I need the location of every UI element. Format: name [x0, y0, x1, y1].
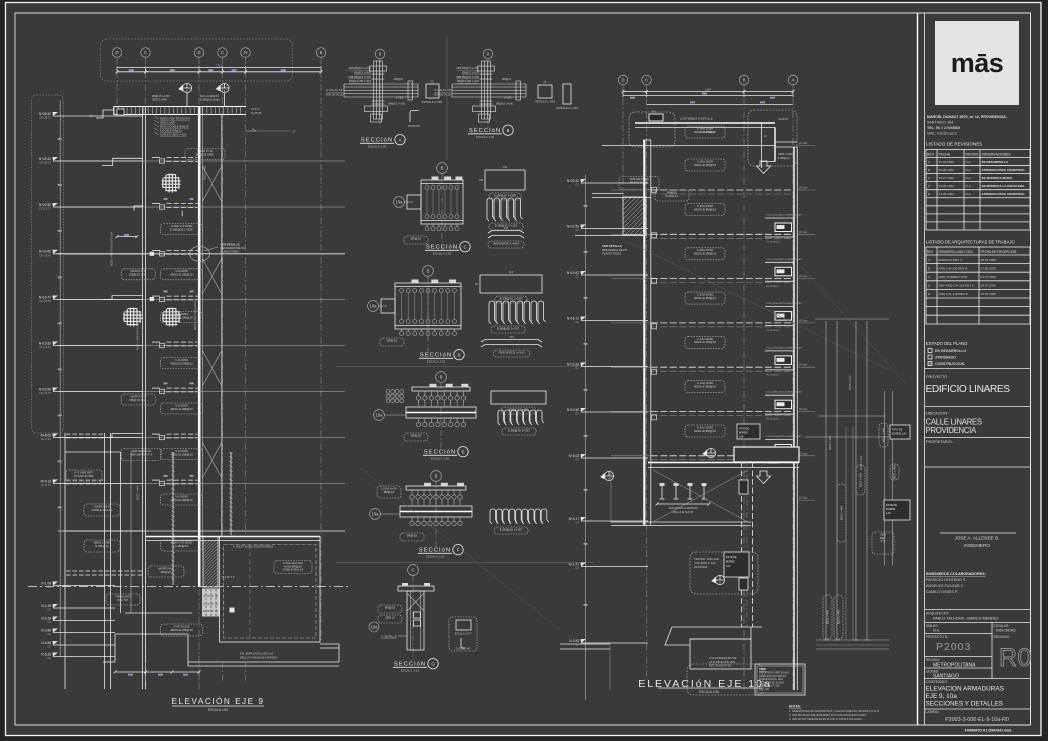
seccion F grid bubble B [431, 471, 442, 482]
svg-text:20.04.2020: 20.04.2020 [981, 258, 997, 262]
svg-text:ESCALA 1:20: ESCALA 1:20 [426, 555, 445, 559]
EJE10a column callout boxes [739, 480, 748, 494]
seccion F top dots row [410, 495, 414, 499]
EJE10a stub box y311.6 [775, 312, 792, 321]
svg-text:2Ø8 Ø8@15 L=160: 2Ø8 Ø8@15 L=160 [456, 75, 479, 79]
svg-text:N+16.72: N+16.72 [39, 295, 51, 299]
svg-text:N+1.27: N+1.27 [569, 562, 580, 566]
svg-text:FECHA: FECHA [939, 153, 951, 157]
svg-text:CF+28.17: CF+28.17 [39, 116, 51, 120]
svg-text:N+28.32: N+28.32 [39, 112, 51, 116]
lamina cell [925, 708, 1031, 710]
svg-text:ESCALAS:: ESCALAS: [994, 624, 1010, 628]
grid bubble N4 EJE9 [241, 48, 251, 58]
EJE9 left level rail line [59, 100, 61, 657]
svg-text:E.Ø8@10 L=167: E.Ø8@10 L=167 [500, 527, 523, 531]
svg-text:N+28.35: N+28.35 [778, 117, 788, 121]
EJE10a floor line 8 [611, 455, 651, 457]
seccion D legend rectangle [480, 275, 542, 293]
svg-text:PLANO P2003: PLANO P2003 [602, 252, 621, 256]
seccion C legend rectangle [485, 170, 525, 190]
svg-text:N.A.: N.A. [966, 160, 972, 164]
svg-text:E: E [928, 192, 930, 196]
EJE9 lower mid clouds [161, 494, 203, 505]
svg-text:N-3.53: N-3.53 [569, 639, 579, 643]
svg-text:B-1: B-1 [652, 110, 657, 114]
divider [925, 437, 1031, 439]
grid bubble C EJE10a [642, 75, 652, 85]
EJE10a right stub floor 7 [797, 411, 815, 413]
svg-text:D.MALLA: D.MALLA [666, 194, 679, 198]
svg-text:10a: 10a [372, 512, 380, 517]
svg-text:N+13.82: N+13.82 [39, 341, 51, 345]
EJE9 floor level line 9 [58, 530, 345, 532]
EJE10a cut symbol low [715, 575, 724, 584]
seccion E legend rectangle [491, 391, 546, 404]
long leader diagonal 2 [360, 468, 560, 630]
seccion B right square details [538, 85, 552, 98]
svg-text:EJE 9, 10a: EJE 9, 10a [926, 693, 958, 700]
svg-text:APRUEBA PARA CONSTRUC.: APRUEBA PARA CONSTRUC. [982, 168, 1026, 172]
EJE10a floor line 2 [611, 189, 651, 191]
svg-text:PLANO P2003: PLANO P2003 [74, 474, 94, 478]
svg-text:ESCALA L=43: ESCALA L=43 [456, 648, 471, 651]
svg-text:ESTE DE: ESTE DE [726, 556, 737, 559]
svg-text:10a: 10a [396, 200, 404, 205]
svg-text:ESCALA 1:50: ESCALA 1:50 [699, 690, 719, 694]
grid bubble A EJE10a [788, 75, 798, 85]
svg-text:N-5.28: N-5.28 [41, 652, 51, 656]
svg-text:4Ø22+E.Ø8@10: 4Ø22+E.Ø8@10 [170, 361, 193, 365]
EJE9 wall label clouds [161, 224, 203, 235]
rebar schedule tie lines [815, 318, 889, 320]
svg-text:B: B [743, 78, 746, 83]
region cell [925, 656, 993, 658]
svg-text:8Ø25 L=460 TRASLAPO 50d: 8Ø25 L=460 TRASLAPO 50d [110, 232, 114, 266]
svg-text:LOSA Ø8@15 L=DETALLE: LOSA Ø8@15 L=DETALLE [680, 117, 713, 121]
EJE9 small dim ticks right wall [164, 198, 166, 200]
svg-text:SECCIóN: SECCIóN [420, 353, 452, 359]
svg-text:8Ø25 L=460: 8Ø25 L=460 [826, 609, 830, 624]
svg-text:LP E.V.: LP E.V. [251, 107, 260, 111]
seccion A right square detail [426, 84, 439, 98]
EJE10a left side clouds [619, 177, 659, 190]
title block outer box [925, 13, 1031, 725]
svg-text:LF Llav: LF Llav [799, 319, 808, 322]
svg-text:PROPIETARIO :: PROPIETARIO : [926, 440, 954, 444]
EJE9 top slab left step [96, 110, 114, 118]
svg-text:V-10a 20/50 4Ø22+E.Ø8@10 L=DET: V-10a 20/50 4Ø22+E.Ø8@10 L=DET [766, 259, 803, 261]
svg-text:D: D [115, 50, 118, 55]
EJE9 bottom dimension line [115, 671, 200, 673]
svg-text:CF+13.67: CF+13.67 [39, 345, 51, 349]
svg-text:3- VER NOTAS GENERALES EN PLAN: 3- VER NOTAS GENERALES EN PLANO N P2003-… [789, 718, 863, 721]
svg-text:A: A [399, 138, 402, 143]
EJE9 bottom right panel [146, 536, 320, 538]
svg-text:DETALLE L=303: DETALLE L=303 [535, 100, 556, 104]
seccion F left bubble [370, 509, 381, 520]
EJE10a right stub floor 4 [797, 278, 815, 280]
svg-text:V-10a 20/50 4Ø22+E.Ø8@10 L=DET: V-10a 20/50 4Ø22+E.Ø8@10 L=DET [766, 215, 803, 217]
EJE10a top right portal column [761, 123, 763, 168]
ciudad cell [925, 667, 993, 669]
EJE9 left wall (double line) [142, 106, 144, 689]
svg-text:C: C [221, 50, 224, 55]
EJE10a floor line 3 [611, 233, 651, 235]
svg-text:APRUEBA PARA CONSTRUC.: APRUEBA PARA CONSTRUC. [982, 192, 1026, 196]
svg-text:CF: CF [575, 366, 579, 370]
svg-text:2- VER DETALLES DEL REFUERZO E: 2- VER DETALLES DEL REFUERZO EN PLANO DE… [789, 714, 867, 717]
svg-text:ESCALA 1:20: ESCALA 1:20 [431, 457, 450, 461]
EJE9 LP edge line right [246, 130, 290, 132]
EJE10a floor line 5 [611, 322, 651, 324]
svg-text:OBSERVACIONES: OBSERVACIONES [982, 153, 1012, 157]
seccion G column [407, 591, 424, 650]
divider arquitecto [925, 609, 1031, 611]
EJE9 panel side ticks [320, 643, 339, 645]
EJE10a floor line 4 [611, 278, 651, 280]
seccion G inner boxes [414, 612, 421, 618]
svg-text:B: B [507, 128, 510, 133]
svg-text:MARCEL DUHAUT 2870, of. 12, PR: MARCEL DUHAUT 2870, of. 12, PROVIDENCIA, [927, 115, 1007, 119]
EJE9 lower-left connect line [65, 530, 143, 532]
svg-text:4Ø22+E.Ø8@10: 4Ø22+E.Ø8@10 [170, 273, 193, 277]
svg-text:BORDE: BORDE [726, 561, 735, 564]
svg-text:CF: CF [47, 656, 51, 660]
seccion D left support bubble [368, 301, 379, 312]
svg-text:N+4.17: N+4.17 [569, 517, 580, 521]
grid bubble B5 EJE9 [316, 48, 326, 58]
EJE9 lower-left clouds [66, 470, 102, 482]
EJE9 right wall (bright) [198, 106, 201, 587]
svg-text:CF: CF [47, 620, 51, 624]
seccion E left dots stack [386, 390, 390, 394]
svg-text:Ø8@15 D.M.: Ø8@15 D.M. [129, 273, 147, 277]
rebar cloud small [872, 532, 894, 554]
svg-text:ESTE DE: ESTE DE [886, 503, 897, 507]
svg-text:1715: 1715 [216, 63, 222, 67]
svg-text:100: 100 [479, 178, 484, 182]
svg-text:N+25.42: N+25.42 [39, 157, 51, 161]
svg-text:200x200x8: 200x200x8 [694, 565, 708, 569]
svg-text:LOS ARRANQUES DE: LOS ARRANQUES DE [709, 656, 737, 660]
svg-text:N+19.62: N+19.62 [39, 250, 51, 254]
svg-text:BORDE: BORDE [739, 432, 748, 435]
divider F/G [336, 562, 594, 564]
svg-text:N.A.: N.A. [966, 176, 972, 180]
seccion C length bracket [488, 231, 524, 234]
svg-text:ESCALA 1:20: ESCALA 1:20 [401, 669, 420, 673]
EJE10a hatch region [623, 197, 646, 235]
svg-text:N+16.72: N+16.72 [567, 316, 579, 320]
svg-text:Ø8@15+Ø8 L=303: Ø8@15+Ø8 L=303 [349, 79, 372, 83]
svg-text:10a: 10a [371, 625, 379, 630]
svg-text:LF Llav: LF Llav [799, 497, 808, 500]
svg-text:LF Llav: LF Llav [799, 187, 808, 190]
svg-text:L=303: L=303 [396, 96, 404, 100]
svg-text:INGENIEROS COLABORADORES:: INGENIEROS COLABORADORES: [926, 572, 986, 576]
svg-text:Ø8@15 L=160: Ø8@15 L=160 [388, 102, 406, 106]
svg-text:NOTAS:: NOTAS: [789, 705, 801, 709]
svg-text:E.Ø8@10 c/lado: E.Ø8@10 c/lado [200, 97, 220, 101]
svg-text:8Ø25 L=460: 8Ø25 L=460 [893, 464, 897, 479]
svg-text:R0: R0 [999, 644, 1032, 672]
EJE10a thick beam over middle column [734, 447, 799, 462]
svg-text:2Ø12 L=340: 2Ø12 L=340 [152, 97, 167, 101]
EJE10a left wall [643, 140, 645, 525]
rebar cluster bottom ticks 2 [816, 639, 889, 641]
EJE10a revision cloud top-right [748, 110, 797, 166]
svg-text:2Ø8 Ø8@15 L=250: 2Ø8 Ø8@15 L=250 [348, 66, 371, 70]
svg-text:UBICACION :: UBICACION : [926, 412, 949, 416]
EJE10a cut symbol mid [706, 448, 715, 457]
svg-text:V-10a 20/50 4Ø22+E.Ø8@10 L=DET: V-10a 20/50 4Ø22+E.Ø8@10 L=DET [766, 303, 803, 305]
EJE10a right stub floor 3 [797, 233, 815, 235]
svg-text:Ø8@15 L=160: Ø8@15 L=160 [496, 102, 514, 106]
svg-text:SE MODIFICA LA ESCALERA: SE MODIFICA LA ESCALERA [982, 184, 1026, 188]
svg-text:TIPO DE: TIPO DE [739, 428, 749, 431]
EJE10a stub box y444.5 [775, 445, 792, 454]
section cut symbol 2 [220, 83, 229, 92]
svg-text:ESCALA 1:20: ESCALA 1:20 [368, 145, 387, 149]
svg-text:LAV: LAV [886, 511, 891, 515]
svg-text:Ø8@15 L=303: Ø8@15 L=303 [354, 70, 372, 74]
EJE9 floor level line 6 [58, 391, 345, 393]
svg-text:Ø8@15: Ø8@15 [387, 338, 398, 342]
svg-text:10a: 10a [370, 304, 378, 309]
svg-text:C: C [463, 245, 466, 250]
svg-text:CF: CF [575, 275, 579, 279]
svg-text:N+28.35: N+28.35 [251, 111, 262, 115]
svg-text:ARQ-LIN-106 REV B: ARQ-LIN-106 REV B [939, 266, 968, 270]
EJE9 panel label [274, 561, 312, 574]
svg-text:B: B [440, 375, 443, 380]
svg-text:V-10a 20/50 4Ø22+E.Ø8@10 L=DET: V-10a 20/50 4Ø22+E.Ø8@10 L=DET [766, 436, 803, 438]
seccion B wall cross [452, 61, 526, 122]
EJE10a top beam [635, 122, 775, 124]
svg-text:LAMINA:: LAMINA: [926, 710, 940, 714]
EJE10a floor line 1 [602, 145, 775, 147]
svg-text:ELEVACIÓN EJE 9: ELEVACIÓN EJE 9 [172, 696, 265, 706]
svg-text:CF: CF [47, 632, 51, 636]
seccion B grid bubble 9 [483, 49, 493, 59]
seccion C grid bubble B [437, 163, 448, 174]
EJE9 grid dashed verticals [116, 58, 118, 111]
EJE10a stub box y400.2 [775, 400, 792, 409]
svg-text:TIPO DE: TIPO DE [892, 428, 903, 432]
svg-text:Ø8@15 D.M.: Ø8@15 D.M. [129, 398, 147, 402]
svg-text:P5 DETALLE: P5 DETALLE [766, 285, 779, 288]
EJE10a stub box y223 [775, 223, 792, 232]
svg-text:CF+4.97: CF+4.97 [41, 483, 52, 487]
svg-text:D: D [457, 353, 460, 358]
svg-text:N.A.: N.A. [966, 184, 972, 188]
svg-text:INGENIERO: INGENIERO [964, 543, 990, 548]
EJE10a right stub floor 2 [797, 189, 815, 191]
svg-text:SECCIóN: SECCIóN [426, 245, 458, 251]
svg-text:8Ø25 L=460: 8Ø25 L=460 [837, 609, 841, 624]
svg-text:4Ø22+E.Ø8@10: 4Ø22+E.Ø8@10 [694, 130, 717, 134]
svg-text:4Ø22+E.Ø8@10: 4Ø22+E.Ø8@10 [694, 252, 717, 256]
seccion E bottom dots row [416, 422, 420, 426]
legend detail box [755, 664, 805, 695]
svg-text:24.07.2020: 24.07.2020 [981, 284, 997, 288]
svg-text:N+22.52: N+22.52 [567, 224, 579, 228]
svg-text:EDIFICIO REV 4: EDIFICIO REV 4 [939, 258, 962, 262]
svg-text:N: N [244, 50, 247, 55]
svg-text:CF+22.37: CF+22.37 [39, 207, 51, 211]
EJE9 floor level line 7 [58, 437, 345, 439]
EJE9 top slab beam [114, 106, 247, 108]
svg-text:4Ø22+E.Ø8@10: 4Ø22+E.Ø8@10 [694, 163, 717, 167]
grid bubble D0 EJE9 [112, 48, 122, 58]
svg-text:ESCALA 1:50: ESCALA 1:50 [208, 708, 228, 712]
svg-text:INDICADAS: INDICADAS [996, 629, 1016, 633]
rebar schedule bright box [890, 425, 910, 439]
svg-text:PROVIDENCIA: PROVIDENCIA [926, 426, 978, 435]
seccion E comb [498, 410, 504, 421]
svg-text:N-3.88: N-3.88 [41, 628, 51, 632]
section cut symbol 1 [182, 83, 191, 92]
svg-text:N+10.92: N+10.92 [567, 408, 579, 412]
EJE10a revision cloud top-left [629, 112, 675, 147]
svg-text:CF: CF [575, 183, 579, 187]
svg-text:ESCALA 1:20: ESCALA 1:20 [433, 252, 452, 256]
svg-text:REFUERZO P-3: REFUERZO P-3 [130, 452, 152, 456]
EJE9 extra clouds [161, 312, 203, 323]
svg-text:EDIFICIO LINARES: EDIFICIO LINARES [926, 384, 1011, 395]
svg-text:PLANO P2003: PLANO P2003 [220, 249, 239, 253]
svg-text:4Ø22+E.Ø8@10: 4Ø22+E.Ø8@10 [694, 207, 717, 211]
EJE10a middle column [741, 462, 743, 627]
svg-text:SE DESARROLLA: SE DESARROLLA [982, 160, 1009, 164]
svg-text:245: 245 [504, 226, 509, 230]
svg-text:SECCIóN: SECCIóN [419, 548, 451, 554]
svg-text:CF: CF [47, 645, 51, 649]
EJE10a stub box y267.3 [775, 267, 792, 276]
svg-text:4Ø22+E.Ø8@10: 4Ø22+E.Ø8@10 [694, 296, 717, 300]
EJE9 floor level line 5 [58, 345, 345, 347]
svg-text:N-1.08: N-1.08 [41, 581, 51, 585]
svg-text:Ø8@15: Ø8@15 [385, 605, 396, 609]
svg-text:N+25.42: N+25.42 [567, 179, 579, 183]
svg-text:FECHA DE RECEPCION: FECHA DE RECEPCION [981, 250, 1017, 254]
EJE 9 top grid frame (dashed cloud box) [101, 39, 293, 81]
svg-text:LAV: LAV [726, 565, 731, 568]
EJE9 mesh circle 1 [162, 173, 181, 192]
svg-text:APROBADO: APROBADO [935, 356, 956, 360]
grid bubble C3 EJE9 [218, 48, 228, 58]
svg-text:CF: CF [575, 412, 579, 416]
svg-text:REVISION:: REVISION: [994, 635, 1010, 639]
seccion G left bubble [369, 622, 379, 632]
svg-text:DOBLE MALLA: DOBLE MALLA [283, 568, 304, 572]
seccion D rebar dots [400, 289, 404, 293]
svg-text:24.04.2020: 24.04.2020 [939, 160, 955, 164]
svg-text:LF Llav: LF Llav [799, 142, 808, 145]
seccion F top flange [406, 486, 466, 490]
seccion G X diagonal [407, 593, 424, 611]
svg-text:21.09.2020: 21.09.2020 [939, 192, 955, 196]
EJE9 floor level line 1 [58, 160, 345, 162]
rebar schedule vertical bars right [825, 321, 827, 640]
EJE9 bottom vertical grid ticks [145, 662, 147, 682]
svg-text:E.Ø8@10 L=303: E.Ø8@10 L=303 [500, 296, 523, 300]
rebar schedule callouts [837, 484, 846, 542]
EJE9 short dim line [117, 236, 137, 238]
svg-text:N.A.: N.A. [966, 168, 972, 172]
svg-text:4Ø22+E.Ø8@10: 4Ø22+E.Ø8@10 [694, 429, 717, 433]
svg-text:N.A.: N.A. [933, 629, 940, 633]
EJE10a mid horizontal at wall base [611, 521, 751, 523]
EJE10a middle column cloud [690, 552, 758, 594]
svg-text:N+10.92: N+10.92 [39, 387, 51, 391]
svg-text:PATRICIO CENTENO S.: PATRICIO CENTENO S. [926, 578, 966, 582]
svg-text:B: B [435, 474, 438, 479]
svg-text:P.N. EMPLANTILLADO e=5: P.N. EMPLANTILLADO e=5 [240, 652, 274, 656]
seccion E top flange [412, 387, 470, 391]
seccion A grid bubble 9 [375, 49, 385, 59]
svg-text:A: A [792, 78, 795, 83]
seccion F bottom dots row [410, 521, 414, 525]
seccion G left labels [378, 605, 402, 613]
EJE10a right stub floor 1 [797, 145, 815, 147]
svg-text:Ø8@15: Ø8@15 [411, 236, 422, 240]
svg-text:N+8.02: N+8.02 [41, 433, 52, 437]
contenido cell [925, 678, 1031, 680]
svg-text:P: MALLA TIP.: P: MALLA TIP. [326, 88, 343, 92]
svg-text:VER DETALLE PERNOS: VER DETALLE PERNOS [668, 506, 697, 510]
svg-text:CF+16.57: CF+16.57 [39, 299, 51, 303]
svg-text:SELLO FUNDACION VER EM: SELLO FUNDACION VER EM [240, 656, 277, 660]
svg-text:B: B [928, 168, 930, 172]
svg-text:ANGELES PULGAR C.: ANGELES PULGAR C. [926, 584, 964, 588]
svg-text:2Ø22 L=480: 2Ø22 L=480 [160, 121, 175, 125]
svg-text:N-2.48: N-2.48 [41, 604, 51, 608]
EJE10a right stub floor 6 [797, 366, 815, 368]
svg-text:E.Ø8@10 L=303: E.Ø8@10 L=303 [494, 193, 517, 197]
svg-text:CF+25.27: CF+25.27 [39, 161, 51, 165]
svg-text:CONSTRUCCION: CONSTRUCCION [935, 362, 965, 366]
svg-text:DETALLE L=160: DETALLE L=160 [422, 100, 443, 104]
svg-text:E: E [928, 292, 930, 296]
revision table [926, 150, 1030, 231]
grid bubble C1 EJE9 [141, 48, 151, 58]
grid bubble D2 EJE9 [194, 48, 204, 58]
EJE10a grid dashed verticals [622, 85, 624, 210]
svg-text:SECCIONES Y DETALLES: SECCIONES Y DETALLES [926, 701, 1003, 708]
svg-text:8Ø25 L=460: 8Ø25 L=460 [882, 427, 886, 442]
svg-text:LISTADO DE ARQUITECTURAS DE TR: LISTADO DE ARQUITECTURAS DE TRABAJO [926, 240, 1015, 245]
seccion D length bracket [481, 340, 542, 343]
svg-text:VER DET. ANCLAJE: VER DET. ANCLAJE [694, 557, 719, 561]
EJE9 ticked rebar bar 2 [230, 452, 232, 535]
svg-text:N+5.12: N+5.12 [41, 479, 52, 483]
svg-text:E.Ø8@10 L=167: E.Ø8@10 L=167 [497, 326, 520, 330]
svg-text:ARQUITECTO:: ARQUITECTO: [926, 612, 949, 616]
divider [925, 368, 1031, 370]
seccion A hook symbol [410, 110, 419, 122]
seccion D left stub [381, 299, 395, 313]
svg-text:Ø8@15: Ø8@15 [161, 570, 172, 574]
EJE9 mesh circles level 5 [123, 307, 142, 326]
svg-text:P5 DETALLE: P5 DETALLE [766, 418, 779, 421]
svg-text:1090: 1090 [705, 87, 711, 91]
seccion F beam band [400, 506, 472, 517]
svg-text:8Ø25 L=460: 8Ø25 L=460 [840, 505, 844, 520]
svg-text:DIBUJO:: DIBUJO: [926, 624, 939, 628]
svg-text:V-10a 20/50 4Ø22+E.Ø8@10 L=DET: V-10a 20/50 4Ø22+E.Ø8@10 L=DET [766, 347, 803, 349]
